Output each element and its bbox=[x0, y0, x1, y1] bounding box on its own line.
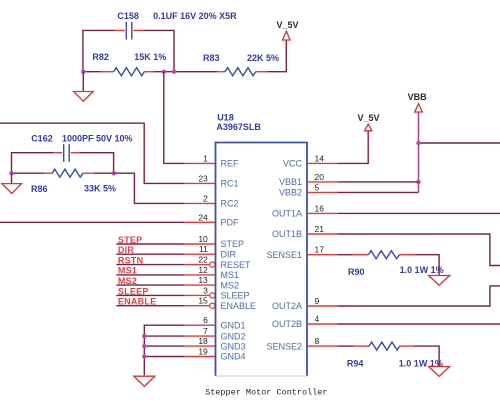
svg-text:15: 15 bbox=[198, 296, 208, 306]
wire R83 right to V_5V bbox=[268, 40, 286, 72]
resistor R90 bbox=[353, 251, 415, 259]
pin 20 VBB1 stub bbox=[307, 181, 337, 183]
capacitor C162 value label bbox=[31, 133, 132, 143]
svg-text:6: 6 bbox=[203, 315, 208, 325]
resistor R86 label bbox=[31, 184, 116, 194]
power V_5V (left) bbox=[277, 20, 299, 40]
svg-text:RC2: RC2 bbox=[221, 199, 239, 209]
svg-text:GND1: GND1 bbox=[221, 320, 246, 330]
node junction VBB1 bbox=[416, 180, 420, 184]
ground C162 bbox=[2, 184, 22, 194]
wire SENSE2 to R94 bbox=[337, 345, 353, 347]
wire MS2 bbox=[116, 284, 184, 286]
ground stub C162 bbox=[11, 173, 13, 183]
svg-text:VCC: VCC bbox=[283, 159, 303, 169]
svg-text:2: 2 bbox=[203, 193, 208, 203]
svg-text:PDF: PDF bbox=[221, 218, 240, 228]
svg-text:R94: R94 bbox=[347, 358, 364, 368]
svg-text:16: 16 bbox=[315, 203, 325, 213]
pin 7 GND2 stub bbox=[185, 335, 216, 337]
svg-text:RESET: RESET bbox=[221, 260, 252, 270]
svg-text:REF: REF bbox=[221, 159, 240, 169]
wire DIR bbox=[116, 253, 184, 255]
op-amp U1 reference label bbox=[216, 112, 261, 132]
wire R94 to ground bbox=[414, 346, 439, 366]
pin 1 REF stub bbox=[185, 162, 216, 164]
IC U18 body bbox=[215, 143, 308, 377]
svg-text:11: 11 bbox=[199, 244, 208, 254]
pin 10 STEP stub bbox=[185, 243, 216, 245]
svg-text:GND4: GND4 bbox=[221, 352, 246, 362]
pin 6 GND1 stub bbox=[185, 324, 216, 326]
node junction C158 bbox=[172, 70, 176, 74]
wire R86 right bbox=[94, 172, 114, 174]
wire OUT2A to right edge bbox=[337, 286, 500, 306]
capacitor C158 bbox=[115, 22, 144, 40]
wire R90 to ground bbox=[415, 255, 439, 276]
svg-text:R82: R82 bbox=[92, 52, 109, 62]
svg-text:OUT1B: OUT1B bbox=[272, 229, 302, 239]
svg-text:20: 20 bbox=[315, 172, 325, 182]
wire VBB1 bbox=[337, 181, 418, 183]
wire C158 right vertical bbox=[144, 30, 175, 71]
pin 16 OUT1A stub bbox=[307, 212, 337, 214]
resistor R94 label bbox=[347, 358, 443, 368]
node junction VBB branch bbox=[416, 141, 420, 145]
svg-text:21: 21 bbox=[315, 224, 325, 234]
power VBB bbox=[408, 92, 428, 112]
resistor R90 label bbox=[348, 265, 444, 277]
svg-text:9: 9 bbox=[315, 296, 320, 306]
wire C162 right vertical bbox=[80, 153, 114, 174]
power V_5V (right) bbox=[358, 113, 380, 131]
wire RC2 net bbox=[114, 173, 185, 203]
resistor R82 bbox=[100, 68, 154, 76]
node junction R82/ground bbox=[81, 70, 85, 74]
svg-text:15K 1%: 15K 1% bbox=[134, 52, 166, 62]
svg-text:OUT1A: OUT1A bbox=[272, 209, 302, 219]
svg-text:SENSE1: SENSE1 bbox=[266, 250, 302, 260]
svg-text:C158: C158 bbox=[117, 11, 139, 21]
wire OUT1A to right edge bbox=[337, 212, 500, 214]
svg-text:DIR: DIR bbox=[221, 249, 237, 259]
wire RSTN bbox=[116, 264, 184, 266]
pin 14 VCC stub bbox=[307, 162, 337, 164]
svg-text:13: 13 bbox=[198, 275, 208, 285]
svg-text:MS2: MS2 bbox=[221, 280, 240, 290]
ground R90 bbox=[429, 276, 450, 286]
svg-text:10: 10 bbox=[198, 234, 208, 244]
svg-text:24: 24 bbox=[198, 212, 208, 222]
wire RC1 net from left edge bbox=[0, 123, 185, 183]
svg-text:C162: C162 bbox=[31, 133, 53, 143]
wire C158 left vertical bbox=[83, 30, 115, 71]
node junction GND4 bbox=[142, 354, 146, 358]
node junction RC2 bbox=[111, 171, 115, 175]
wire VCC to V_5V bbox=[337, 131, 368, 164]
pin 13 MS2 stub bbox=[185, 284, 216, 286]
wire SLEEP bbox=[116, 294, 184, 296]
pin 22 RESET stub with bubble bbox=[185, 262, 215, 267]
svg-text:VBB1: VBB1 bbox=[279, 177, 302, 187]
capacitor C162 bbox=[53, 144, 80, 162]
wire VBB vertical bbox=[418, 112, 420, 192]
resistor R82 label bbox=[92, 52, 166, 62]
svg-text:3: 3 bbox=[203, 285, 208, 295]
pin 21 OUT1B stub bbox=[307, 233, 337, 235]
node junction GND3 bbox=[142, 344, 146, 348]
svg-text:1.0 1W 1%: 1.0 1W 1% bbox=[400, 265, 444, 275]
svg-text:OUT2B: OUT2B bbox=[272, 319, 302, 329]
pin 18 GND3 stub bbox=[185, 345, 216, 347]
resistor R83 bbox=[217, 68, 268, 76]
wire REF net bbox=[164, 72, 185, 164]
svg-text:33K 5%: 33K 5% bbox=[84, 184, 116, 194]
svg-text:22K 5%: 22K 5% bbox=[247, 53, 279, 63]
svg-text:RC1: RC1 bbox=[221, 179, 239, 189]
svg-text:ENABLE: ENABLE bbox=[221, 301, 257, 311]
ground stub top-left bbox=[82, 72, 84, 92]
pin 19 GND4 stub bbox=[185, 356, 216, 358]
svg-text:22: 22 bbox=[198, 255, 208, 265]
svg-text:14: 14 bbox=[315, 153, 325, 163]
capacitor C158 value label bbox=[117, 11, 237, 21]
wire R82 right to junctions bbox=[154, 71, 217, 73]
wire PDF net from left edge bbox=[0, 221, 185, 223]
svg-text:VBB: VBB bbox=[408, 92, 428, 102]
svg-text:V_5V: V_5V bbox=[358, 113, 380, 123]
svg-text:U18: U18 bbox=[217, 112, 234, 122]
resistor R86 bbox=[44, 169, 94, 177]
wire VBB2 bbox=[337, 191, 418, 193]
svg-text:SLEEP: SLEEP bbox=[221, 291, 250, 301]
pin 11 DIR stub bbox=[185, 253, 216, 255]
pin 8 SENSE2 stub bbox=[307, 345, 337, 347]
pin 24 PDF stub bbox=[185, 221, 216, 223]
svg-text:4: 4 bbox=[315, 314, 320, 324]
pin 4 OUT2B stub bbox=[307, 323, 337, 325]
wire VBB branch to right edge bbox=[419, 142, 500, 144]
wire GND bus bbox=[144, 325, 184, 375]
pin 5 VBB2 stub bbox=[307, 191, 337, 193]
pin 12 MS1 stub bbox=[185, 274, 216, 276]
node junction GND2 bbox=[142, 334, 146, 338]
svg-text:Stepper Motor Controller: Stepper Motor Controller bbox=[205, 387, 327, 397]
pin 2 RC2 stub bbox=[185, 202, 216, 204]
wire R86 left bbox=[12, 172, 45, 174]
wire C162 left vertical bbox=[12, 153, 54, 174]
svg-text:17: 17 bbox=[315, 245, 325, 255]
svg-text:R86: R86 bbox=[31, 184, 48, 194]
svg-text:OUT2A: OUT2A bbox=[272, 301, 302, 311]
svg-text:R83: R83 bbox=[203, 53, 220, 63]
resistor R83 label bbox=[203, 53, 279, 63]
svg-text:VBB2: VBB2 bbox=[279, 188, 302, 198]
pin 15 ENABLE stub with bubble bbox=[185, 303, 215, 308]
pin 23 RC1 stub bbox=[185, 182, 216, 184]
wire OUT1B to right edge bbox=[337, 234, 500, 266]
pin 3 SLEEP stub with bubble bbox=[185, 293, 215, 298]
ground top-left bbox=[74, 92, 94, 102]
svg-text:GND3: GND3 bbox=[221, 341, 246, 351]
svg-text:19: 19 bbox=[198, 347, 208, 357]
svg-text:R90: R90 bbox=[348, 267, 365, 277]
svg-text:0.1UF 16V 20% X5R: 0.1UF 16V 20% X5R bbox=[153, 11, 237, 21]
svg-text:SENSE2: SENSE2 bbox=[266, 341, 302, 351]
svg-text:5: 5 bbox=[315, 182, 320, 192]
wire STEP bbox=[116, 243, 184, 245]
svg-text:MS1: MS1 bbox=[221, 270, 240, 280]
wire MS1 bbox=[116, 274, 184, 276]
node junction REF bbox=[162, 70, 166, 74]
resistor R94 bbox=[353, 342, 414, 350]
svg-text:1: 1 bbox=[203, 153, 208, 163]
pin 9 OUT2A stub bbox=[307, 305, 337, 307]
svg-text:V_5V: V_5V bbox=[277, 20, 299, 30]
svg-text:GND2: GND2 bbox=[221, 331, 246, 341]
svg-text:8: 8 bbox=[315, 336, 320, 346]
pin 17 SENSE1 stub bbox=[307, 254, 337, 256]
node junction R86 left bbox=[9, 171, 13, 175]
wire SENSE1 to R90 bbox=[337, 254, 352, 256]
svg-text:A3967SLB: A3967SLB bbox=[216, 122, 261, 132]
svg-text:7: 7 bbox=[203, 326, 208, 336]
ground GND bus bbox=[134, 376, 155, 386]
ground R94 bbox=[429, 367, 450, 377]
svg-text:23: 23 bbox=[198, 173, 208, 183]
wire OUT2B to right edge bbox=[337, 323, 500, 325]
wire R82 left bbox=[83, 71, 100, 73]
svg-text:STEP: STEP bbox=[221, 239, 245, 249]
svg-text:1000PF 50V 10%: 1000PF 50V 10% bbox=[62, 133, 133, 143]
svg-text:12: 12 bbox=[198, 265, 208, 275]
wire ENABLE bbox=[116, 305, 184, 307]
svg-text:18: 18 bbox=[198, 336, 208, 346]
